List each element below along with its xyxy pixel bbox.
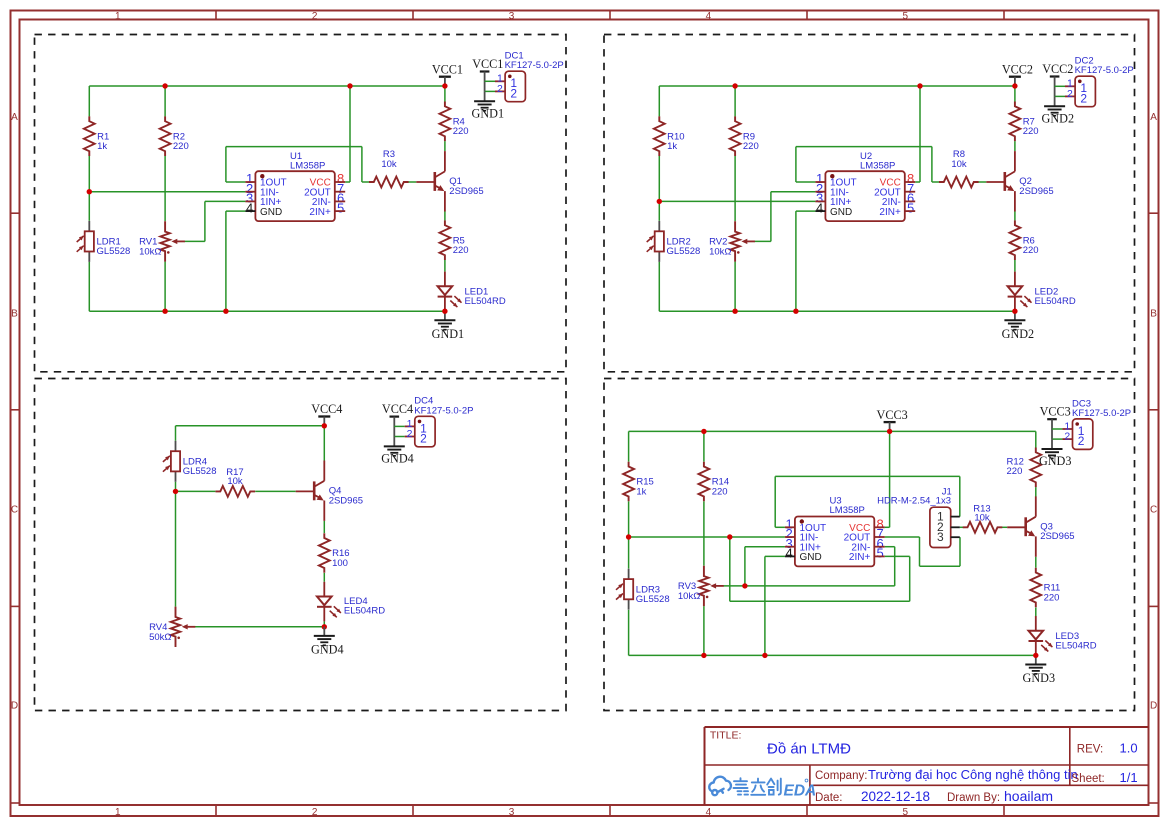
svg-text:EL504RD: EL504RD: [344, 606, 385, 617]
svg-text:EL504RD: EL504RD: [1055, 641, 1096, 652]
svg-text:220: 220: [1044, 592, 1060, 603]
svg-text:2: 2: [1078, 434, 1085, 448]
svg-text:100: 100: [332, 558, 348, 569]
svg-text:VCC4: VCC4: [382, 402, 413, 416]
svg-text:Sheet:: Sheet:: [1072, 773, 1105, 785]
svg-text:D: D: [1150, 700, 1157, 711]
svg-text:220: 220: [453, 126, 469, 137]
svg-text:GND: GND: [800, 552, 822, 563]
svg-text:5: 5: [903, 11, 909, 22]
svg-text:KF127-5.0-2P: KF127-5.0-2P: [1072, 408, 1131, 419]
svg-text:VCC2: VCC2: [1002, 62, 1033, 76]
svg-text:10kΩ: 10kΩ: [678, 591, 700, 602]
svg-text:2: 2: [420, 431, 427, 445]
svg-text:1.0: 1.0: [1120, 741, 1138, 756]
svg-text:D: D: [11, 700, 18, 711]
svg-text:VCC3: VCC3: [877, 408, 908, 422]
svg-text:GL5528: GL5528: [667, 246, 701, 257]
svg-text:220: 220: [1007, 466, 1023, 477]
svg-text:1: 1: [115, 11, 121, 22]
svg-text:KF127-5.0-2P: KF127-5.0-2P: [1075, 65, 1134, 76]
svg-text:GND: GND: [830, 207, 852, 218]
svg-text:2: 2: [312, 11, 318, 22]
svg-text:KF127-5.0-2P: KF127-5.0-2P: [505, 60, 564, 71]
svg-text:Trường đại học Công nghệ thông: Trường đại học Công nghệ thông tin: [868, 767, 1078, 782]
svg-text:GND2: GND2: [1002, 327, 1035, 341]
svg-text:5: 5: [903, 807, 909, 818]
svg-text:1k: 1k: [97, 141, 107, 152]
svg-text:Đồ án LTMĐ: Đồ án LTMĐ: [767, 741, 851, 758]
svg-text:2SD965: 2SD965: [1019, 186, 1053, 197]
svg-text:220: 220: [1023, 245, 1039, 256]
svg-text:HDR-M-2.54_1x3: HDR-M-2.54_1x3: [877, 496, 951, 507]
svg-text:KF127-5.0-2P: KF127-5.0-2P: [414, 405, 473, 416]
svg-text:220: 220: [743, 141, 759, 152]
svg-text:VCC3: VCC3: [1040, 405, 1071, 419]
svg-text:Date:: Date:: [815, 792, 843, 804]
svg-text:GND4: GND4: [311, 643, 344, 657]
svg-text:10k: 10k: [381, 159, 397, 170]
svg-text:C: C: [1150, 504, 1157, 515]
svg-text:220: 220: [1023, 126, 1039, 137]
svg-text:2022-12-18: 2022-12-18: [861, 789, 930, 804]
svg-text:2SD965: 2SD965: [449, 186, 483, 197]
svg-text:220: 220: [712, 486, 728, 497]
svg-text:GND4: GND4: [381, 452, 414, 466]
svg-text:GND2: GND2: [1042, 111, 1075, 125]
svg-text:4: 4: [706, 807, 712, 818]
svg-text:A: A: [1150, 112, 1157, 123]
svg-text:1k: 1k: [667, 141, 677, 152]
svg-text:hoailam: hoailam: [1004, 788, 1053, 804]
svg-text:GL5528: GL5528: [97, 246, 131, 257]
svg-text:2: 2: [407, 428, 413, 440]
svg-text:2SD965: 2SD965: [1040, 531, 1074, 542]
svg-text:2: 2: [1080, 91, 1087, 105]
svg-text:2IN+: 2IN+: [849, 552, 871, 563]
svg-text:1: 1: [115, 807, 121, 818]
svg-text:REV:: REV:: [1077, 744, 1103, 756]
svg-text:1/1: 1/1: [1120, 770, 1138, 785]
svg-text:50kΩ: 50kΩ: [149, 632, 171, 643]
svg-text:10k: 10k: [227, 476, 243, 487]
svg-text:VCC1: VCC1: [432, 62, 463, 76]
svg-text:GND1: GND1: [432, 327, 465, 341]
svg-text:2: 2: [510, 86, 517, 100]
svg-text:2: 2: [312, 807, 318, 818]
svg-text:GND3: GND3: [1039, 454, 1072, 468]
svg-text:GL5528: GL5528: [183, 466, 217, 477]
svg-text:10k: 10k: [974, 513, 990, 524]
svg-text:GND3: GND3: [1023, 671, 1056, 685]
svg-text:TITLE:: TITLE:: [710, 730, 742, 742]
svg-text:2: 2: [1067, 88, 1073, 100]
svg-text:EL504RD: EL504RD: [465, 296, 506, 307]
svg-text:10k: 10k: [951, 159, 967, 170]
svg-text:LM358P: LM358P: [860, 161, 895, 172]
svg-text:2IN+: 2IN+: [309, 207, 331, 218]
svg-text:4: 4: [246, 200, 253, 215]
svg-text:10kΩ: 10kΩ: [709, 247, 731, 258]
svg-text:2IN+: 2IN+: [879, 207, 901, 218]
svg-text:2SD965: 2SD965: [329, 495, 363, 506]
svg-text:4: 4: [816, 200, 823, 215]
svg-text:5: 5: [877, 546, 884, 561]
svg-text:EL504RD: EL504RD: [1035, 296, 1076, 307]
svg-text:5: 5: [337, 200, 344, 215]
svg-text:EDA: EDA: [784, 782, 817, 799]
svg-text:2: 2: [497, 83, 503, 95]
svg-text:LM358P: LM358P: [290, 161, 325, 172]
svg-text:GND1: GND1: [472, 106, 505, 120]
svg-text:5: 5: [907, 200, 914, 215]
svg-text:VCC1: VCC1: [472, 57, 503, 71]
svg-text:220: 220: [173, 141, 189, 152]
svg-text:GL5528: GL5528: [636, 594, 670, 605]
svg-text:220: 220: [453, 245, 469, 256]
svg-text:4: 4: [785, 546, 792, 561]
svg-text:VCC2: VCC2: [1042, 62, 1073, 76]
svg-text:2: 2: [1064, 431, 1070, 443]
svg-text:A: A: [11, 112, 18, 123]
svg-text:1k: 1k: [636, 486, 646, 497]
svg-text:GND: GND: [260, 207, 282, 218]
svg-text:10kΩ: 10kΩ: [139, 247, 161, 258]
svg-text:3: 3: [509, 11, 515, 22]
svg-text:LM358P: LM358P: [830, 505, 865, 516]
svg-text:VCC4: VCC4: [311, 402, 342, 416]
svg-text:C: C: [11, 504, 18, 515]
svg-text:Drawn By:: Drawn By:: [947, 792, 1000, 804]
svg-text:3: 3: [509, 807, 515, 818]
svg-text:B: B: [11, 308, 18, 319]
svg-text:3: 3: [937, 530, 944, 544]
svg-text:B: B: [1150, 308, 1157, 319]
svg-text:4: 4: [706, 11, 712, 22]
svg-text:Company:: Company:: [815, 770, 867, 782]
